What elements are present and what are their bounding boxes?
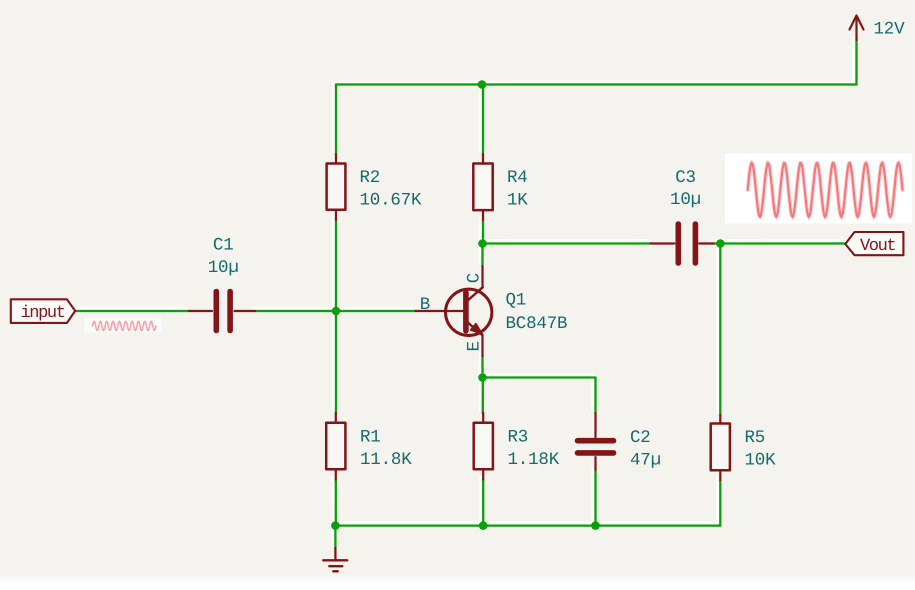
junction collector node xyxy=(478,239,487,248)
svg-text:47µ: 47µ xyxy=(630,450,661,470)
junction R3 bottom node xyxy=(479,521,488,530)
wire emitter node to C2 branch xyxy=(483,378,596,414)
resistor R3 xyxy=(474,413,493,480)
svg-text:BC847B: BC847B xyxy=(506,314,568,334)
wire C2 bottom xyxy=(594,470,596,526)
svg-text:10µ: 10µ xyxy=(208,258,239,278)
svg-text:1K: 1K xyxy=(507,190,528,210)
wire R2 top xyxy=(335,85,337,155)
svg-text:10K: 10K xyxy=(745,450,777,470)
transistor Q1 xyxy=(416,266,492,356)
svg-text:C2: C2 xyxy=(630,428,651,448)
wire ground stem xyxy=(334,526,336,548)
resistor R2 xyxy=(327,154,346,220)
wire Vout node to Vout port xyxy=(720,242,845,244)
svg-text:10µ: 10µ xyxy=(670,190,701,210)
wire collector node to Q1 collector xyxy=(481,244,483,267)
capacitor C3 xyxy=(651,224,715,263)
output waveform panel xyxy=(725,154,912,224)
capacitor C2 xyxy=(578,413,614,470)
svg-text:10.67K: 10.67K xyxy=(360,190,423,210)
wire Q1 emitter down xyxy=(481,356,483,378)
junction emitter node xyxy=(478,373,487,382)
svg-text:C1: C1 xyxy=(213,236,234,256)
svg-text:R4: R4 xyxy=(507,168,528,188)
input waveform thumbnail xyxy=(84,318,161,332)
ground xyxy=(323,548,347,571)
svg-text:B: B xyxy=(420,295,431,315)
svg-text:R1: R1 xyxy=(360,428,381,448)
resistor R5 xyxy=(711,415,730,480)
svg-text:input: input xyxy=(21,304,65,323)
wire R2 bottom to R1 top xyxy=(335,220,337,413)
wire R1 bottom xyxy=(335,480,337,526)
wire emitter node to R3 xyxy=(482,378,484,414)
svg-text:Vout: Vout xyxy=(860,237,895,256)
wire base node to Q1 base xyxy=(336,310,416,312)
resistor R1 xyxy=(326,413,345,480)
junction C2 bottom node xyxy=(591,521,600,530)
svg-text:R2: R2 xyxy=(360,168,381,188)
junction ground node xyxy=(331,521,340,530)
svg-text:11.8K: 11.8K xyxy=(360,450,412,470)
junction top rail node xyxy=(478,80,487,89)
wire top rail xyxy=(336,83,857,85)
capacitor C1 xyxy=(189,292,255,331)
wire R3 bottom xyxy=(482,480,484,526)
svg-text:12V: 12V xyxy=(874,20,906,40)
wire C3 to Vout node xyxy=(714,242,720,244)
wire C1 to base node xyxy=(255,310,336,312)
wire Vout node down to R5 xyxy=(719,244,721,416)
svg-text:C3: C3 xyxy=(675,168,696,188)
wire R4 bottom to collector node xyxy=(482,220,484,244)
port Vout xyxy=(845,232,903,256)
svg-text:C: C xyxy=(464,273,484,284)
wire collector node to C3 xyxy=(483,242,651,244)
resistor R4 xyxy=(473,154,492,220)
wire ground rail xyxy=(335,524,720,526)
svg-text:R5: R5 xyxy=(745,428,766,448)
wire input to C1 xyxy=(75,310,189,312)
port input xyxy=(11,299,75,323)
wire 12V riser xyxy=(855,40,857,85)
wire halo overshoot xyxy=(72,37,853,546)
junction base node xyxy=(332,307,341,316)
svg-text:Q1: Q1 xyxy=(506,291,527,311)
wire R4 top xyxy=(482,85,484,155)
power 12V xyxy=(850,16,864,41)
svg-text:1.18K: 1.18K xyxy=(508,450,560,470)
svg-text:E: E xyxy=(464,341,484,352)
junction Vout node xyxy=(716,239,725,248)
svg-text:R3: R3 xyxy=(508,428,529,448)
wire R5 bottom xyxy=(719,480,721,526)
